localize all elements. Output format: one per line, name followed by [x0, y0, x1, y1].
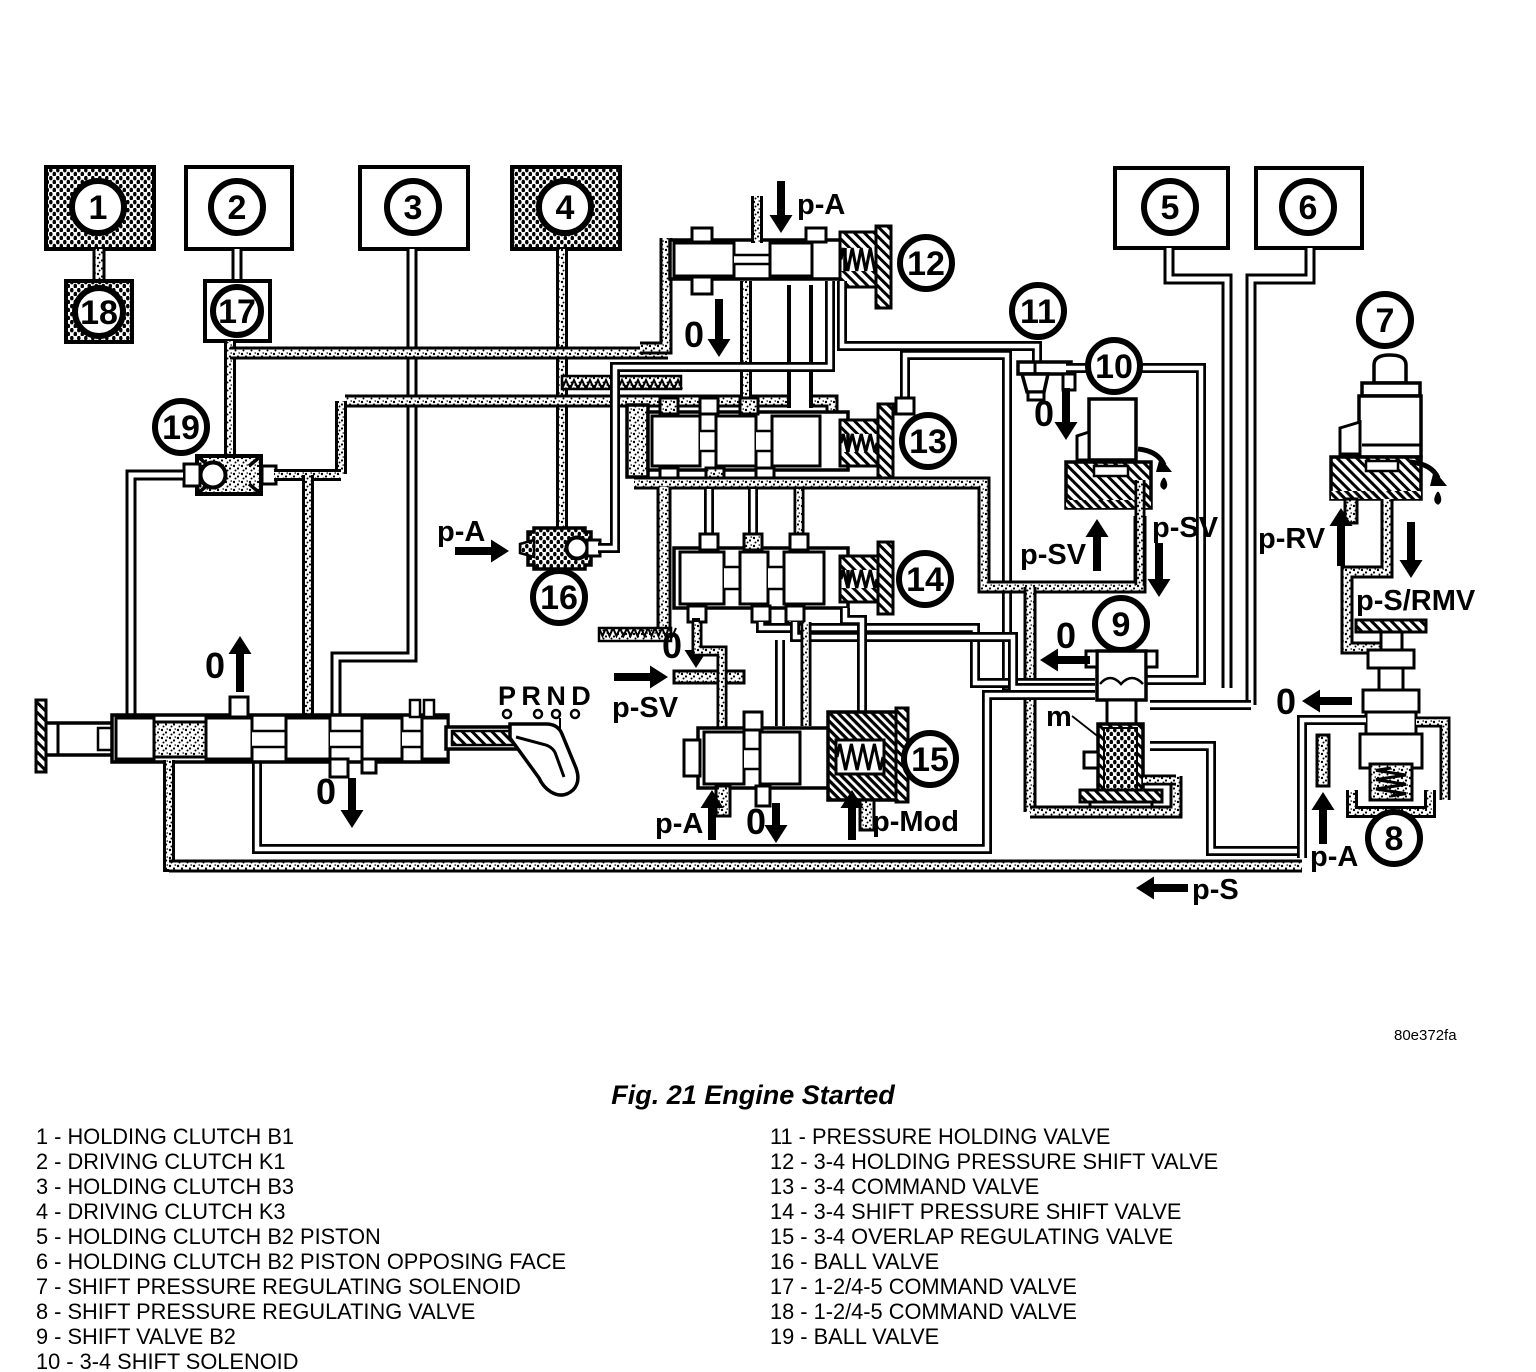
circle label 10: [1088, 340, 1140, 392]
svg-text:9 - SHIFT VALVE B2: 9 - SHIFT VALVE B2: [36, 1324, 236, 1349]
valve 14 body: [674, 548, 848, 608]
legend left column: [36, 1124, 566, 1372]
arrow p-S left: [1136, 877, 1188, 900]
label p-SV under solenoid 10: [1020, 539, 1087, 571]
circle label 7: [1359, 294, 1411, 346]
wide duct valve12 to valve 13: [787, 285, 813, 408]
pipe box3 down to manual valve: [336, 249, 412, 715]
valve 8 flange A: [1368, 650, 1414, 668]
valve 13 top stub 1: [660, 398, 678, 414]
label m: [1046, 701, 1100, 738]
label p-A valve 15: [655, 808, 703, 840]
manual valve stem 2: [330, 730, 362, 748]
manual valve land 4: [362, 718, 402, 759]
pipe box4 down to ball valve 16: [556, 249, 568, 527]
circle label 9: [1095, 598, 1147, 650]
valve 12 land A: [674, 243, 734, 276]
pipe valve14 right to valve 9 B: [795, 622, 1095, 688]
detent lever hook: [510, 724, 578, 795]
svg-text:11 - PRESSURE HOLDING VALVE: 11 - PRESSURE HOLDING VALVE: [770, 1124, 1110, 1149]
selector leader line: [559, 718, 561, 748]
document number: [1394, 1027, 1457, 1044]
circle label 2: [211, 181, 263, 233]
svg-text:0: 0: [1056, 615, 1076, 656]
valve 14 top stub 2: [744, 534, 762, 550]
svg-text:14 - 3-4 SHIFT PRESSURE SHIFT: 14 - 3-4 SHIFT PRESSURE SHIFT VALVE: [770, 1199, 1181, 1224]
svg-text:10 - 3-4 SHIFT SOLENOID: 10 - 3-4 SHIFT SOLENOID: [36, 1349, 298, 1372]
valve 9 base plate: [1080, 790, 1162, 810]
legend right column: [770, 1124, 1218, 1349]
arrow 0 down below valve 12: [708, 299, 731, 357]
valve 13 body: [648, 412, 848, 470]
channel horizontal H2: [345, 401, 832, 415]
label 0 manual valve up: [205, 645, 225, 686]
manual valve top stubs right: [410, 700, 434, 717]
detent lever rod: [446, 727, 522, 749]
circle label 19: [155, 401, 207, 453]
svg-text:18: 18: [80, 294, 118, 332]
manual valve land 3: [286, 718, 330, 759]
svg-text:p-SV: p-SV: [1152, 512, 1219, 544]
circle label 6: [1282, 181, 1334, 233]
circle label 16: [533, 571, 585, 623]
arrow p-SV right: [614, 666, 668, 689]
svg-text:p-A: p-A: [797, 189, 845, 221]
arrow p-SV down right: [1148, 543, 1171, 597]
valve 15 bottom stub pA: [716, 786, 730, 816]
svg-text:4: 4: [556, 189, 575, 227]
circle label 8: [1368, 812, 1420, 864]
svg-text:12: 12: [907, 245, 945, 283]
label p-SV right of solenoid 10: [1152, 512, 1219, 544]
valve 14 top stub 1: [700, 534, 718, 550]
svg-text:m: m: [1046, 701, 1072, 733]
pipe bottom thin to valve 9: [257, 695, 1095, 849]
pipe jog valve15 top: [801, 622, 812, 726]
svg-text:p-S: p-S: [1192, 874, 1239, 906]
svg-text:0: 0: [662, 625, 682, 666]
svg-text:15 - 3-4 OVERLAP REGULATING VA: 15 - 3-4 OVERLAP REGULATING VALVE: [770, 1224, 1173, 1249]
pipe channel to valve14 top A: [704, 489, 714, 536]
svg-text:p-SV: p-SV: [612, 692, 679, 724]
svg-text:11: 11: [1020, 293, 1056, 331]
pipe valve16 riser to valve12: [598, 281, 830, 548]
pressure holding valve 11 funnel: [1018, 362, 1071, 400]
circle label 14: [899, 553, 951, 605]
circle label 11: [1012, 285, 1064, 337]
valve 15 bottom stub pMod: [860, 800, 874, 830]
valve 16 left wedge: [520, 540, 534, 557]
valve 9 stem: [1107, 700, 1136, 726]
manual valve bottom stub 3: [362, 759, 376, 773]
svg-text:13 - 3-4 COMMAND VALVE: 13 - 3-4 COMMAND VALVE: [770, 1174, 1039, 1199]
pipe valve13 stub to valve 9 long: [905, 355, 1095, 686]
arrow 0 down below valve 14: [685, 618, 708, 668]
svg-text:18 - 1-2/4-5 COMMAND VALVE: 18 - 1-2/4-5 COMMAND VALVE: [770, 1299, 1077, 1324]
valve 9 m block: [1098, 724, 1143, 794]
circle label 5: [1144, 181, 1196, 233]
svg-text:6 - HOLDING CLUTCH B2 PISTON O: 6 - HOLDING CLUTCH B2 PISTON OPPOSING FA…: [36, 1249, 566, 1274]
svg-text:8 - SHIFT PRESSURE REGULATING: 8 - SHIFT PRESSURE REGULATING VALVE: [36, 1299, 475, 1324]
valve 13 top stub 3: [740, 398, 758, 414]
svg-text:10: 10: [1095, 348, 1133, 386]
solenoid 7 base: [1331, 457, 1421, 499]
label 0 valve 15: [746, 801, 766, 842]
manual valve push rod: [46, 723, 114, 755]
holding clutch B2 opposing face box 6: [1256, 168, 1362, 248]
svg-text:p-RV: p-RV: [1258, 523, 1326, 555]
valve 12 end wall: [876, 226, 891, 308]
svg-text:5: 5: [1161, 189, 1180, 227]
pipe box6 down: [1251, 248, 1310, 705]
svg-text:4 - DRIVING CLUTCH K3: 4 - DRIVING CLUTCH K3: [36, 1199, 286, 1224]
ball valve 16 body: [528, 528, 591, 569]
label P R N D: [498, 681, 591, 711]
pipe box1 to box18: [93, 249, 106, 283]
pipe valve14 right to valve 9 A: [761, 622, 1095, 683]
valve 12 spring cage: [840, 232, 878, 287]
svg-text:0: 0: [684, 314, 704, 355]
valve 14 stem A: [724, 566, 740, 590]
valve 13 land B: [716, 416, 756, 466]
valve 8 bottom tray: [1352, 790, 1430, 812]
valve 8 flange B: [1363, 690, 1419, 712]
valve 8 p-A stub: [1317, 735, 1329, 786]
pipe box5 down: [1169, 248, 1227, 688]
valve 8 flange C: [1366, 712, 1416, 734]
valve 13 stem A: [700, 430, 716, 452]
svg-text:0: 0: [746, 801, 766, 842]
label 0 valve 8: [1276, 681, 1296, 722]
svg-text:17: 17: [218, 293, 256, 331]
svg-text:p-A: p-A: [1310, 841, 1358, 873]
holding clutch B3 box 3: [360, 167, 468, 249]
valve 8 body: [1360, 734, 1422, 768]
circle label 1: [72, 181, 124, 233]
circle label 17: [213, 287, 261, 335]
valve 13 bottom stub 1: [660, 468, 678, 484]
circle label 13: [902, 415, 954, 467]
valve 16 right stub: [587, 540, 600, 556]
svg-text:8: 8: [1385, 820, 1404, 858]
svg-text:3: 3: [404, 189, 423, 227]
svg-text:15: 15: [911, 741, 949, 779]
valve 15 stem: [744, 748, 760, 770]
pipe valve14 to valve9 outer: [789, 621, 791, 622]
valve 13 top stub 2: [700, 398, 718, 414]
circle label 3: [387, 181, 439, 233]
circle label 4: [539, 181, 591, 233]
arrow 0 up manual valve: [229, 636, 252, 692]
1-2/4-5 command valve box 17: [205, 281, 270, 341]
valve 15 land B: [760, 732, 800, 784]
shift pressure regulating solenoid 7: [1340, 355, 1421, 457]
solenoid 10 drip arrow: [1138, 449, 1172, 489]
arrow 0 down manual valve: [341, 778, 364, 828]
arrow 0 left valve 8: [1302, 690, 1352, 713]
pipe valve19 left to manual valve: [131, 475, 183, 715]
svg-text:13: 13: [909, 423, 947, 461]
valve 12 top stub right: [806, 228, 826, 242]
arrow p-A right into valve 16: [455, 540, 509, 563]
svg-text:p-A: p-A: [437, 516, 485, 548]
ball of valve 19: [201, 463, 226, 488]
valve 14 end wall: [878, 542, 893, 614]
speckled bar p-SV inlet: [674, 671, 744, 683]
svg-text:2: 2: [228, 189, 247, 227]
valve 14 bottom stub 2: [752, 606, 770, 622]
solenoid 10 base: [1066, 462, 1151, 508]
caption Fig. 21 Engine Started: [611, 1080, 895, 1110]
pipe valve14 to valve15 inlet: [697, 622, 722, 728]
arrow p-A up valve 15: [701, 790, 724, 840]
label 0 manual valve down: [316, 771, 336, 812]
svg-text:1: 1: [89, 189, 108, 227]
holding clutch B1 box 1: [46, 167, 154, 249]
valve 9 cup: [1086, 651, 1157, 700]
valve 8 left pipe: [1302, 720, 1366, 858]
valve 12 left bracket channel: [640, 238, 666, 348]
svg-text:0: 0: [1034, 393, 1054, 434]
svg-text:16: 16: [540, 579, 578, 617]
manual valve land 2: [206, 718, 252, 759]
valve 15 top stub: [744, 712, 762, 730]
svg-text:16 - BALL VALVE: 16 - BALL VALVE: [770, 1249, 939, 1274]
svg-text:9: 9: [1112, 606, 1131, 644]
label p-RV: [1258, 523, 1326, 555]
valve 14 top stub 3: [790, 534, 808, 550]
valve 13 bottom stub 2: [706, 468, 724, 484]
3-4 shift solenoid 10 body: [1077, 399, 1136, 460]
valve 8 neck: [1381, 632, 1402, 650]
label 0 below valve 14: [662, 625, 682, 666]
svg-text:0: 0: [1276, 681, 1296, 722]
svg-text:p-A: p-A: [655, 808, 703, 840]
valve 13 end wall: [878, 404, 893, 478]
valve 15 spring block: [828, 712, 898, 800]
label 0 valve 9: [1056, 615, 1076, 656]
pipe valve 9 loop to valve 8: [1150, 746, 1300, 851]
funnel 11 drain stub: [1063, 374, 1075, 390]
label 0 funnel drain: [1034, 393, 1054, 434]
valve 14 stem B: [768, 566, 784, 590]
selector dots: [503, 710, 579, 718]
pipe channel to valve14 top B: [748, 489, 758, 536]
channel H2 drop to valve 19: [335, 401, 347, 474]
pipe solenoid 7 down: [1347, 499, 1391, 648]
svg-text:19 - BALL VALVE: 19 - BALL VALVE: [770, 1324, 939, 1349]
valve 14 spring cage: [840, 556, 878, 602]
arrow 0 left valve 9: [1040, 649, 1090, 672]
svg-text:19: 19: [162, 409, 200, 447]
valve 13 land C: [772, 416, 820, 466]
valve 12 bottom stub drain: [692, 277, 712, 294]
svg-text:6: 6: [1299, 189, 1318, 227]
circle label 15: [904, 733, 956, 785]
arrow p-RV up: [1330, 508, 1353, 566]
valve 12 stem: [734, 254, 770, 265]
valve 15 end wall: [896, 708, 908, 802]
label p-A top: [797, 189, 845, 221]
label 0 below valve 12: [684, 314, 704, 355]
pipe valve12 to funnel 11: [842, 281, 1037, 362]
pipe box17 down to channel: [224, 341, 236, 460]
svg-text:2 - DRIVING CLUTCH K1: 2 - DRIVING CLUTCH K1: [36, 1149, 286, 1174]
manual valve stem 1: [252, 730, 286, 748]
label p-A into valve 16: [437, 516, 485, 548]
svg-text:3 - HOLDING CLUTCH B3: 3 - HOLDING CLUTCH B3: [36, 1174, 294, 1199]
manual valve bottom stub 2: [330, 759, 348, 777]
svg-text:p-Mod: p-Mod: [872, 806, 959, 838]
arrow 0 down valve 15: [765, 803, 788, 843]
svg-text:P R N D: P R N D: [498, 681, 591, 711]
label p-S/RMV: [1356, 585, 1476, 617]
valve 9 right link: [1143, 775, 1176, 786]
channel under valve 13: [634, 483, 1140, 587]
holding clutch B2 piston box 5: [1115, 168, 1228, 248]
manual valve land 5: [422, 718, 448, 759]
valve 14 land C: [784, 552, 824, 604]
valve 14 land A: [680, 552, 724, 604]
arrow p-Mod up: [841, 790, 864, 840]
svg-text:17 - 1-2/4-5 COMMAND VALVE: 17 - 1-2/4-5 COMMAND VALVE: [770, 1274, 1077, 1299]
arrow p-A into valve 12: [770, 181, 793, 233]
valve 13 top stub 4: [896, 398, 914, 414]
label p-S: [1192, 874, 1239, 906]
svg-text:7: 7: [1376, 302, 1395, 340]
1-2/4-5 command valve box 18: [66, 281, 132, 342]
pipe channel to valve14 top C: [794, 489, 805, 536]
manual valve body: [112, 715, 448, 762]
pipe valve14 to valve15 top: [775, 640, 785, 726]
channel down to valve 9 loop: [1024, 587, 1037, 812]
solenoid 7 drip arrow: [1410, 462, 1447, 504]
valve 15 left stub: [684, 740, 700, 776]
valve 15 body: [698, 728, 836, 788]
driving clutch K3 box 4: [512, 167, 620, 249]
svg-text:1 - HOLDING CLUTCH B1: 1 - HOLDING CLUTCH B1: [36, 1124, 294, 1149]
valve 14 bottom stub 3: [786, 606, 804, 622]
valve 14 land B: [740, 552, 768, 604]
valve 14 left wall column: [657, 487, 672, 634]
channel sawtooth lower H4: [599, 628, 676, 641]
valve 13 spring cage: [840, 420, 878, 466]
arrow p-SV up under solenoid 10: [1086, 519, 1109, 571]
channel sawtooth upper: [562, 376, 682, 389]
pipe box2 to box17: [232, 249, 243, 283]
channel p-SV top horizontal: [230, 347, 668, 360]
valve 8 spring cage: [1370, 764, 1412, 800]
valve 12 top stub left: [692, 228, 712, 242]
pipe solenoid 10 base right drain: [1135, 480, 1146, 585]
arrow 0 down funnel drain: [1055, 388, 1078, 440]
pipe valve12 p-A feed to valve 13: [740, 281, 752, 410]
manual valve top stub 0: [230, 697, 248, 717]
svg-text:12 - 3-4 HOLDING PRESSURE SHIF: 12 - 3-4 HOLDING PRESSURE SHIFT VALVE: [770, 1149, 1218, 1174]
valve 12 body: [670, 240, 845, 279]
ball valve 19 body: [197, 456, 261, 494]
pipe valve19 right branch: [274, 469, 341, 481]
arrow down right of solenoid 7: [1400, 522, 1423, 578]
svg-text:7 - SHIFT PRESSURE REGULATING: 7 - SHIFT PRESSURE REGULATING SOLENOID: [36, 1274, 521, 1299]
manual valve hatched block: [154, 722, 206, 757]
valve 8 right loop: [1416, 722, 1445, 800]
valve 12 land B: [770, 243, 812, 276]
valve 15 bottom stub 0: [756, 786, 770, 806]
valve 13 left wall: [627, 405, 648, 477]
valve 19 left stub: [184, 464, 200, 486]
valve 19 right stub: [262, 466, 276, 484]
manual valve bottom drain L: [169, 760, 250, 866]
svg-text:p-SV: p-SV: [1020, 539, 1087, 571]
pipe box6 line into valve 9: [1150, 700, 1251, 710]
driving clutch K1 box 2: [186, 167, 292, 249]
valve 15 land A: [704, 732, 744, 784]
main channel p-S bottom: [169, 860, 1302, 873]
valve 9 bottom channel: [1030, 776, 1176, 812]
valve 8 neck B: [1379, 668, 1403, 690]
svg-text:80e372fa: 80e372fa: [1394, 1027, 1457, 1044]
valve 13 land A: [652, 416, 700, 466]
valve 8 top plate: [1356, 620, 1426, 632]
valve 12 p-A feed stub: [751, 196, 763, 243]
pipe valve14 down to spring block 15: [845, 608, 862, 712]
valve 13 stem B: [756, 430, 772, 452]
pipe funnel 11 overflow right: [1066, 368, 1201, 680]
svg-text:0: 0: [316, 771, 336, 812]
manual valve land 1: [116, 718, 154, 759]
valve 14 bottom stub 1: [688, 606, 706, 622]
valve 9 left stub mid: [1084, 752, 1098, 768]
manual valve stem 3: [402, 730, 422, 748]
pipe valve19 branch down to manual valve: [302, 475, 314, 715]
svg-text:Fig. 21 Engine Started: Fig. 21 Engine Started: [611, 1080, 895, 1110]
circle label 18: [75, 288, 123, 336]
svg-text:14: 14: [906, 561, 944, 599]
arrow p-A up valve 8: [1312, 792, 1335, 844]
label p-A valve 8: [1310, 841, 1358, 873]
circle label 12: [900, 237, 952, 289]
valve 13 bottom stub 3: [756, 468, 774, 484]
label p-SV left: [612, 692, 679, 724]
svg-text:5 - HOLDING CLUTCH B2 PISTON: 5 - HOLDING CLUTCH B2 PISTON: [36, 1224, 381, 1249]
label p-Mod: [872, 806, 959, 838]
svg-text:p-S/RMV: p-S/RMV: [1356, 585, 1476, 617]
solenoid 7 left drain stub: [1345, 499, 1357, 523]
ball of valve 16: [567, 538, 588, 559]
svg-text:0: 0: [205, 645, 225, 686]
manual valve end plate: [36, 700, 46, 772]
